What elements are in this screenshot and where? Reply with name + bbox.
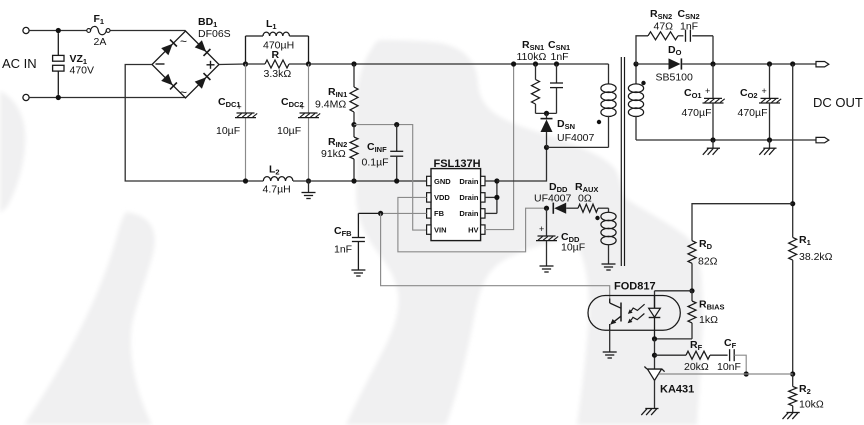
wire snubber join <box>536 112 557 114</box>
wire secondary snubber <box>636 36 648 64</box>
node drain1 <box>494 178 499 183</box>
node RIN1/RIN2 <box>351 122 356 127</box>
svg-text:Drain: Drain <box>459 193 479 202</box>
ground CDD <box>540 265 554 267</box>
svg-text:+: + <box>539 224 544 234</box>
node AC top / VZ1 tap <box>56 28 61 33</box>
transformer secondary winding <box>635 64 637 85</box>
svg-text:GND: GND <box>434 177 451 186</box>
capacitor CDC1 10uF <box>245 64 247 113</box>
capacitor CF 10nF <box>729 349 731 361</box>
resistor RBIAS 1kohm <box>691 291 693 301</box>
node CINF top <box>394 122 399 127</box>
diode DSN UF4007 <box>546 113 548 119</box>
svg-text:R: R <box>272 49 280 61</box>
svg-text:FSL137H: FSL137H <box>434 158 481 170</box>
capacitor CSN2 1nF <box>685 30 687 42</box>
svg-text:38.2kΩ: 38.2kΩ <box>799 251 833 263</box>
capacitor CO2 470uF <box>769 64 771 98</box>
svg-text:3.3kΩ: 3.3kΩ <box>264 68 292 80</box>
capacitor CINF 0.1uF <box>396 125 398 152</box>
terminal DC OUT plus <box>816 62 829 67</box>
resistor RD 82ohm <box>688 241 696 264</box>
wire LED anode <box>655 290 693 292</box>
node bus RSN1 <box>533 61 538 66</box>
opto phototransistor <box>620 303 622 322</box>
svg-text:47Ω: 47Ω <box>654 21 674 33</box>
node bus CDC2 <box>306 61 311 66</box>
node divider <box>790 371 795 376</box>
svg-text:+: + <box>705 86 710 96</box>
resistor RAUX 0ohm <box>578 204 598 212</box>
resistor R2 10kohm <box>792 374 794 386</box>
svg-text:9.4MΩ: 9.4MΩ <box>315 99 346 111</box>
node out CO1 <box>710 61 715 66</box>
inductor L1 470uH <box>245 36 247 64</box>
wire cathode down <box>654 339 656 369</box>
ground primary rail <box>308 181 310 193</box>
svg-text:UF4007: UF4007 <box>534 193 572 205</box>
wire secondary output <box>636 63 669 65</box>
resistor RSN1 110kohm <box>535 64 537 80</box>
svg-text:~: ~ <box>180 35 187 49</box>
svg-text:HV: HV <box>468 225 478 234</box>
ground aux <box>602 263 616 265</box>
node rail RIN2 <box>351 178 356 183</box>
svg-text:+: + <box>762 86 767 96</box>
node rail CINF <box>394 178 399 183</box>
resistor RSN2 47ohm <box>648 32 678 40</box>
opto FOD817 body <box>588 296 680 331</box>
watermark logo <box>0 40 703 425</box>
svg-text:10µF: 10µF <box>216 125 240 137</box>
svg-text:4.7µH: 4.7µH <box>263 184 291 196</box>
op IC U1 FSL137H <box>431 169 481 241</box>
svg-text:UF4007: UF4007 <box>557 132 595 144</box>
node bus RIN1 <box>351 61 356 66</box>
svg-text:1kΩ: 1kΩ <box>699 314 718 326</box>
svg-text:470µF: 470µF <box>738 107 768 119</box>
node FB/CFB <box>378 211 383 216</box>
node rail CO1 <box>710 137 715 142</box>
svg-text:2A: 2A <box>94 36 107 48</box>
shunt regulator KA431 <box>647 368 662 370</box>
node secondary phase dot <box>641 81 645 85</box>
resistor RF 20kohm <box>655 354 687 356</box>
svg-text:91kΩ: 91kΩ <box>321 148 346 160</box>
node out CO2 <box>767 61 772 66</box>
svg-text:AC IN: AC IN <box>2 56 37 71</box>
node CDD tap <box>544 206 549 211</box>
svg-text:+: + <box>300 102 305 112</box>
svg-text:0.1µF: 0.1µF <box>362 157 389 169</box>
svg-text:SB5100: SB5100 <box>656 72 694 84</box>
node out sense <box>790 61 795 66</box>
wire primary bottom <box>547 146 609 148</box>
wire bridge plus to bus <box>219 63 246 66</box>
svg-text:Drain: Drain <box>459 177 479 186</box>
svg-text:+: + <box>237 102 242 112</box>
wire AC line top <box>29 30 87 32</box>
node bus HV <box>511 61 516 66</box>
node rail CDC1 <box>243 178 248 183</box>
ground CO2 <box>769 140 771 148</box>
wire RD branch <box>692 204 793 241</box>
svg-text:10nF: 10nF <box>717 361 741 373</box>
ground opto emitter <box>603 351 617 353</box>
diode DO SB5100 <box>669 58 681 69</box>
fuse F1 2A <box>87 29 91 33</box>
svg-text:DC OUT: DC OUT <box>813 95 863 110</box>
svg-text:VDD: VDD <box>434 193 450 202</box>
svg-text:DF06S: DF06S <box>198 28 231 40</box>
wire bridge minus to bottom rail <box>125 65 263 182</box>
svg-text:KA431: KA431 <box>660 384 694 396</box>
svg-text:20kΩ: 20kΩ <box>684 361 709 373</box>
wire output sense <box>792 64 794 237</box>
svg-text:1nF: 1nF <box>334 244 352 256</box>
svg-text:82Ω: 82Ω <box>698 256 718 268</box>
capacitor CDD 10uF <box>546 208 548 236</box>
node secondary top <box>633 61 638 66</box>
ground CO1 <box>712 140 714 148</box>
wire opto emitter <box>609 330 611 352</box>
node RD / LED anode <box>689 288 694 293</box>
capacitor CFB 1nF <box>358 212 380 214</box>
terminal DC OUT minus <box>816 137 829 142</box>
node drain/DSN anode <box>544 145 549 150</box>
capacitor CO1 470uF <box>712 64 714 98</box>
varistor VZ1 470V <box>57 33 59 55</box>
node rail CO2 <box>767 137 772 142</box>
opto LED <box>654 296 656 309</box>
wire drain to transformer <box>497 147 547 181</box>
node rail CDC2 <box>306 178 311 183</box>
transformer primary winding <box>605 63 609 65</box>
wire VIN sense <box>354 125 427 231</box>
ground KA431 <box>645 408 658 410</box>
node bus CSN1 <box>554 61 559 66</box>
wire bottom rail to GND pin <box>293 180 427 182</box>
wire FB to opto <box>381 213 610 303</box>
wire VDD loop <box>398 197 547 251</box>
svg-text:10kΩ: 10kΩ <box>799 399 824 411</box>
node bus CDC1 <box>243 61 248 66</box>
wire AC line bottom <box>29 97 185 99</box>
svg-text:1nF: 1nF <box>680 21 698 33</box>
wire HV pin <box>485 64 514 230</box>
svg-text:FOD817: FOD817 <box>614 281 656 293</box>
node snubber mid <box>544 111 549 116</box>
svg-text:VIN: VIN <box>434 225 447 234</box>
svg-text:Drain: Drain <box>459 209 479 218</box>
resistor RIN2 91kohm <box>353 125 355 137</box>
wire drain tie <box>485 180 497 182</box>
wire secondary return rail <box>636 139 816 141</box>
diode DDD UF4007 <box>554 203 566 214</box>
ground CFB <box>351 269 365 271</box>
resistor RIN1 9.4Mohm <box>353 64 355 87</box>
wire KA431 ref <box>659 373 746 375</box>
node primary phase dot <box>597 120 601 124</box>
node ref <box>744 371 749 376</box>
node drain2 <box>494 195 499 200</box>
node RF tap <box>652 353 657 358</box>
AC input terminal bottom <box>23 94 29 100</box>
wire RBIAS to LED cathode <box>655 338 693 340</box>
svg-text:1nF: 1nF <box>551 51 569 63</box>
node LED cathode <box>652 336 657 341</box>
svg-text:10µF: 10µF <box>277 125 301 137</box>
transformer aux winding <box>608 208 610 212</box>
capacitor CSN1 1nF <box>556 64 558 83</box>
svg-text:FB: FB <box>434 209 445 218</box>
AC input terminal top <box>23 27 29 33</box>
capacitor CDC2 10uF <box>308 64 310 113</box>
wire ref to divider <box>746 373 793 375</box>
opto light arrows <box>631 304 644 311</box>
wire FB pin <box>381 212 427 214</box>
wire main bus <box>309 63 606 65</box>
resistor R 3.3kohm <box>246 63 266 65</box>
inductor L2 4.7uH <box>263 177 293 181</box>
svg-text:10µF: 10µF <box>561 242 585 254</box>
bridge rectifier BD1 DF06S <box>152 31 219 98</box>
node aux phase dot <box>595 216 599 220</box>
svg-text:~: ~ <box>180 86 187 100</box>
transformer core <box>620 57 622 266</box>
svg-text:0Ω: 0Ω <box>578 193 592 205</box>
svg-text:110kΩ: 110kΩ <box>517 51 547 63</box>
svg-text:470V: 470V <box>70 65 95 77</box>
ground R2 <box>787 412 800 414</box>
resistor R1 38.2kohm <box>789 237 797 260</box>
node AC bottom / VZ1 tap <box>56 95 61 100</box>
wire CF to divider <box>734 355 746 374</box>
svg-text:470µF: 470µF <box>682 107 712 119</box>
node sense RD branch <box>790 201 795 206</box>
